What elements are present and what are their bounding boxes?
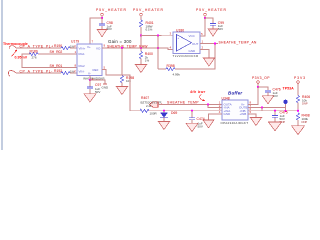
svg-text:50V: 50V <box>198 124 203 128</box>
wire feedback to -INB <box>261 108 263 111</box>
ground <box>203 120 214 128</box>
power port P5V_HEATER (left) <box>96 8 127 18</box>
page border left <box>1 0 3 150</box>
svg-text:+INB: +INB <box>240 112 247 116</box>
svg-text:Buffer: Buffer <box>228 91 242 96</box>
off-page connector SHEATHE_TEMP <box>150 102 159 108</box>
node R198 tap <box>121 47 123 49</box>
node P5V_HEATER junction <box>101 17 103 19</box>
svg-text:0.95mV: 0.95mV <box>15 55 28 59</box>
svg-text:RG2: RG2 <box>79 64 86 68</box>
resistor R401 <box>139 20 153 36</box>
svg-text:10k: 10k <box>126 79 131 83</box>
node diode tap <box>163 110 165 112</box>
svg-text:1%: 1% <box>145 58 150 62</box>
wire U180 GND to ground <box>200 50 209 59</box>
resistor R407 100R <box>140 96 162 116</box>
svg-text:VO: VO <box>96 46 101 50</box>
wire -INB net <box>248 110 298 112</box>
svg-text:50V: 50V <box>218 27 223 31</box>
node R406 <box>297 110 299 112</box>
U179 V- pin wire <box>89 76 91 81</box>
svg-text:276: 276 <box>32 56 37 60</box>
svg-text:R189: R189 <box>30 50 38 54</box>
capacitor C98 1uF 50V <box>99 21 113 31</box>
node <box>157 34 159 36</box>
capacitor C475 DNP <box>272 111 288 125</box>
wire +INB <box>248 114 256 118</box>
node OUT <box>214 42 216 44</box>
wire to C98 <box>101 18 103 24</box>
svg-text:2.2k: 2.2k <box>146 104 152 108</box>
svg-text:+: + <box>178 36 180 40</box>
annotation arrow <box>12 51 17 57</box>
wire to U180 VCC <box>200 18 205 36</box>
svg-text:DNP: DNP <box>302 120 308 124</box>
resistor R189 276 <box>29 50 38 60</box>
wire V+ supply <box>248 87 258 104</box>
node C475 tap <box>191 110 193 112</box>
wire <box>175 44 215 70</box>
svg-text:GND: GND <box>189 49 197 53</box>
svg-text:REF: REF <box>93 68 99 72</box>
node on VO wire <box>140 47 142 49</box>
svg-text:100R: 100R <box>150 112 158 116</box>
ground <box>269 122 282 131</box>
node <box>261 106 263 108</box>
node C475 tap <box>274 110 276 112</box>
node feedback <box>207 103 209 105</box>
resistor R400 2k <box>139 52 153 65</box>
resistor R192 <box>54 69 75 75</box>
svg-text:U179: U179 <box>71 40 79 44</box>
svg-text:SHEATHE_TEMP_AN: SHEATHE_TEMP_AN <box>219 40 257 44</box>
svg-text:4th bwr: 4th bwr <box>189 90 206 94</box>
wire <box>70 72 77 74</box>
resistor R398 4.99k <box>166 64 180 76</box>
svg-text:SH_R01: SH_R01 <box>50 64 63 68</box>
node <box>204 17 206 19</box>
ground <box>158 122 169 130</box>
capacitor C99 1uF 50V <box>210 21 224 31</box>
resistor R408 100k DNP <box>296 113 309 126</box>
wire VO <box>102 48 173 50</box>
wire <box>70 47 77 49</box>
svg-text:D69: D69 <box>171 111 177 115</box>
wire <box>16 47 61 49</box>
svg-text:VCC: VCC <box>189 34 196 38</box>
svg-text:SH_R02: SH_R02 <box>50 50 63 54</box>
ground <box>135 65 146 73</box>
node <box>257 86 259 88</box>
ground GND symbol <box>102 84 110 89</box>
wire divider to U180 +IN <box>141 35 173 37</box>
wire to GND symbol <box>90 80 105 84</box>
op-amp U179 INA188 <box>71 40 102 76</box>
power port P5V_HEATER (middle, feeds R401) <box>133 8 164 20</box>
svg-text:50V: 50V <box>95 90 100 94</box>
svg-text:VIN+: VIN+ <box>79 46 86 50</box>
power port P5V_HEATER (right, U180 supply) <box>196 8 227 18</box>
svg-text:Gain = 300: Gain = 300 <box>108 39 132 44</box>
power port P3V3_OP <box>252 76 270 87</box>
wire to C99 <box>205 18 213 23</box>
ground <box>262 96 273 104</box>
svg-text:DNP: DNP <box>302 102 308 106</box>
wire <box>212 25 214 29</box>
capacitor C475 <box>189 111 205 129</box>
svg-text:R192: R192 <box>54 69 62 73</box>
ground <box>84 94 96 102</box>
svg-text:0.1%: 0.1% <box>146 28 153 32</box>
svg-text:-: - <box>178 48 179 52</box>
svg-text:R398: R398 <box>167 64 175 68</box>
ground <box>208 29 217 36</box>
svg-text:V+: V+ <box>87 45 91 49</box>
wire <box>16 72 61 74</box>
ground <box>186 123 198 131</box>
svg-text:GND: GND <box>102 85 110 89</box>
wire down <box>140 36 142 52</box>
node divider tap <box>140 34 142 36</box>
svg-text:VIN-: VIN- <box>79 69 85 73</box>
wire feedback bottom <box>158 68 166 70</box>
op-amp U180 <box>173 28 200 53</box>
ground <box>292 126 305 135</box>
svg-text:GND: GND <box>224 112 232 116</box>
svg-text:P5V_HEATER: P5V_HEATER <box>196 8 227 12</box>
wire feedback vertical <box>157 36 159 69</box>
thermocouple hook - <box>8 71 16 77</box>
svg-text:V-: V- <box>88 72 91 76</box>
wire REF to buffer input <box>102 70 140 111</box>
annotation arrow <box>200 94 203 100</box>
test point TP53A <box>283 87 295 111</box>
svg-text:R407: R407 <box>141 96 149 100</box>
svg-text:SHEATHE_TEMP: SHEATHE_TEMP <box>167 101 199 105</box>
wire <box>101 26 103 30</box>
node feedback tap <box>157 47 159 49</box>
svg-text:4.99k: 4.99k <box>173 73 181 77</box>
ground <box>97 30 106 37</box>
resistor R406 10k DNP <box>296 95 310 111</box>
thermocouple hook + <box>9 46 16 50</box>
wire RG1 loop <box>38 53 77 55</box>
op-amp U348 buffer <box>222 96 249 120</box>
wire GND pin <box>209 114 223 120</box>
node V- <box>89 79 91 81</box>
wire OUTB net <box>248 107 286 109</box>
svg-text:RG1: RG1 <box>79 52 86 56</box>
svg-text:OPA2340AIDGKT: OPA2340AIDGKT <box>221 121 249 125</box>
resistor R190 <box>54 44 75 50</box>
svg-text:TP53A: TP53A <box>283 87 295 91</box>
node TP <box>284 110 286 112</box>
wire <box>22 54 77 68</box>
svg-text:R190: R190 <box>54 44 62 48</box>
wire buffer input <box>148 110 222 112</box>
ground <box>250 118 261 126</box>
capacitor C97 1uF 50V <box>87 80 102 94</box>
wire to C476 <box>258 87 268 90</box>
wire buffer output <box>158 103 222 105</box>
svg-text:P5V_HEATER: P5V_HEATER <box>133 8 164 12</box>
svg-text:P3V3: P3V3 <box>294 76 306 80</box>
svg-text:OUT: OUT <box>192 42 199 46</box>
svg-text:P5V_HEATER: P5V_HEATER <box>96 8 127 12</box>
resistor R198 10k <box>120 76 134 87</box>
wire down to R198 <box>121 48 123 76</box>
diode D69 <box>160 111 177 122</box>
power port P3V3 <box>294 76 306 96</box>
wire feedback to -INA <box>208 104 222 107</box>
svg-text:TLV2316IDCKR: TLV2316IDCKR <box>173 54 200 58</box>
wire U180 OUT <box>200 43 218 45</box>
wire to U179 V+ pin <box>90 18 102 44</box>
ground <box>116 87 127 95</box>
ground <box>203 58 214 66</box>
capacitor C476 <box>265 88 281 98</box>
svg-text:P3V3_OP: P3V3_OP <box>252 76 270 80</box>
